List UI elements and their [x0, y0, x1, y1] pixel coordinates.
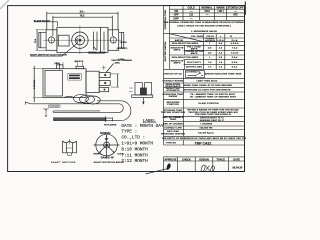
top view far-left clip tab	[39, 32, 46, 48]
capillary return line	[54, 110, 100, 112]
svg-text:AMP(S): AMP(S)	[175, 39, 184, 42]
terminal tab 2	[99, 81, 110, 86]
svg-text:1/2+5/8 Kg/cm: 1/2+5/8 Kg/cm	[198, 133, 214, 135]
flange view right lug	[145, 83, 152, 95]
svg-text:AMPS: AMPS	[191, 52, 198, 55]
svg-text:TEMP: TEMP	[170, 119, 177, 121]
faston leader	[106, 64, 114, 73]
capillary inner hairpin upper line	[31, 104, 124, 113]
svg-text:1 13/16: 1 13/16	[120, 42, 128, 44]
side view shaft stem	[57, 64, 64, 70]
capillary outer hairpin bend	[112, 101, 131, 121]
svg-text:SHAFT ROTATION ANGLE: SHAFT ROTATION ANGLE	[94, 161, 125, 164]
svg-text:SHAFT SECTION: SHAFT SECTION	[51, 161, 76, 164]
svg-text:(2-SHEET): (2-SHEET)	[117, 48, 128, 50]
svg-text:LESS THAN 50mΩ: LESS THAN 50mΩ	[197, 79, 218, 82]
svg-text:OFF: OFF	[174, 14, 179, 17]
svg-text:ELECTRIC RATING: ELECTRIC RATING	[164, 41, 167, 61]
bulb left cap	[53, 117, 55, 121]
svg-text:THE DEPTH OF IMMERSION OF CAPI: THE DEPTH OF IMMERSION OF CAPILLARY MUST…	[162, 137, 247, 140]
spec rows grid	[183, 69, 185, 136]
top view right mounting bracket	[108, 30, 119, 51]
svg-text:RANGE 40°: RANGE 40°	[101, 157, 115, 160]
flange center pin	[143, 98, 145, 104]
sensing bulb (hatched)	[54, 118, 106, 121]
svg-text:DATE : MONTH DAY: DATE : MONTH DAY	[121, 124, 164, 129]
svg-text:TA : AMBIENT TEMP. OF SWITCH B: TA : AMBIENT TEMP. OF SWITCH BODY	[190, 93, 236, 96]
side view left vertical dimension	[33, 66, 35, 102]
svg-text:CONTACT RATING: CONTACT RATING	[162, 79, 183, 82]
design signature	[201, 165, 215, 172]
central shaft boss outer circle	[72, 32, 88, 48]
svg-text:PILOT DUTY: PILOT DUTY	[187, 62, 202, 64]
spec rows texts	[161, 70, 247, 145]
svg-text:1.5-10: 1.5-10	[231, 52, 239, 54]
dimension line mounting holes	[53, 16, 112, 18]
approve signature	[166, 163, 170, 169]
svg-text:TMP CA32: TMP CA32	[195, 141, 212, 145]
svg-text:POSITION: POSITION	[167, 104, 179, 106]
svg-text:100,000 WX: 100,000 WX	[199, 127, 213, 129]
signature block texts	[146, 158, 243, 174]
approve flourish	[146, 168, 170, 174]
svg-text:AMPS: AMPS	[174, 49, 181, 52]
svg-text:0.5-2: 0.5-2	[232, 67, 238, 69]
side view inner front panel	[45, 70, 62, 96]
svg-text:VOLTS: VOLTS	[206, 36, 214, 38]
dial tick right-down	[107, 145, 115, 153]
svg-text:F.L.A: F.L.A	[232, 39, 238, 42]
boss dim extension lines	[76, 61, 78, 67]
svg-text:74±2: 74±2	[204, 10, 210, 13]
svg-text:TESTING CONDITION: TESTING CONDITION	[161, 112, 186, 114]
operating temp table texts	[164, 6, 245, 33]
dial tick left-down	[99, 145, 107, 153]
svg-text:( AND 1 SPACE ON THE SECOND OP: ( AND 1 SPACE ON THE SECOND OPERATING )	[177, 25, 231, 28]
svg-text:76.2: 76.2	[80, 15, 85, 18]
svg-text:THE NORMAL OPERATING TEMP IS M: THE NORMAL OPERATING TEMP IS MEASURED KE…	[164, 21, 245, 24]
svg-text:TYPE :: TYPE :	[121, 130, 137, 135]
flange view center body dark	[140, 88, 147, 96]
border frame	[8, 6, 245, 172]
electric rating table texts	[171, 35, 240, 69]
inner box left of boss	[58, 35, 69, 46]
svg-text:5.5-4: 5.5-4	[232, 61, 238, 64]
svg-text:AMPS: AMPS	[174, 62, 181, 65]
svg-text:APPROVE: APPROVE	[164, 158, 177, 161]
svg-text:7:11 MONTH: 7:11 MONTH	[121, 153, 148, 158]
svg-text:ON: ON	[174, 10, 178, 13]
svg-text:875: 875	[233, 14, 238, 17]
vertical centerline	[79, 26, 81, 55]
svg-text:RESET: RESET	[94, 154, 102, 156]
svg-text:1. REFERENCE VALUE: 1. REFERENCE VALUE	[191, 30, 217, 33]
svg-text:TRACE: TRACE	[216, 158, 225, 161]
bulb flange tick	[105, 116, 107, 122]
svg-text:[ 88 ]: [ 88 ]	[218, 10, 224, 13]
flange view left lug	[135, 83, 142, 95]
top view body	[57, 27, 108, 52]
svg-text:STORED OFF: STORED OFF	[227, 6, 244, 9]
svg-text:RANGE: RANGE	[169, 95, 178, 98]
svg-text:NON-INDUCTIVE AMPS: NON-INDUCTIVE AMPS	[172, 56, 199, 59]
bellows detail right of boss	[94, 27, 105, 52]
svg-text:AMPS: AMPS	[191, 47, 198, 50]
svg-text:NORMAL: NORMAL	[100, 132, 111, 135]
terminal tab 3	[99, 88, 109, 92]
electric rating table grid	[169, 34, 171, 70]
side view body	[43, 69, 86, 98]
right margin dark mark	[244, 2, 246, 16]
svg-text:TB : AMBIENT TEMP. OF SENSING: TB : AMBIENT TEMP. OF SENSING PART	[190, 96, 237, 99]
svg-text:SWITCH STYLE: SWITCH STYLE	[164, 74, 182, 76]
dial center hub	[104, 142, 110, 148]
svg-text:SOURCE: SOURCE	[205, 40, 215, 42]
svg-text:( CONTACT ): ( CONTACT )	[186, 70, 201, 73]
svg-text:NON-INDUCTIVE AMPS: NON-INDUCTIVE AMPS	[172, 42, 199, 45]
svg-text:MOTOR LOAD: MOTOR LOAD	[186, 66, 202, 69]
svg-text:WARM: WARM	[217, 6, 225, 9]
operating temp table grid	[169, 6, 171, 34]
side view terminal block	[86, 71, 99, 92]
shaft dim ticks	[56, 62, 58, 65]
horizontal centerline	[43, 39, 122, 41]
svg-text:7.5-4: 7.5-4	[232, 47, 238, 50]
left bracket hole	[48, 37, 54, 43]
label box on body (dark sticker)	[68, 74, 81, 81]
switch style mini diagram	[186, 71, 205, 78]
svg-text:PRESSURE TESTING: PRESSURE TESTING	[161, 133, 185, 135]
dial vertical axis	[106, 135, 108, 158]
shaft section inner lines	[66, 143, 72, 153]
top view left mounting bracket	[46, 30, 57, 51]
svg-text:SENSING PART 50 °C: SENSING PART 50 °C	[200, 119, 225, 122]
capillary left end cap	[52, 111, 55, 113]
side view boss	[76, 66, 84, 68]
table column left edge	[163, 6, 165, 145]
shaft section outline	[63, 141, 77, 153]
shaft circle middle	[75, 36, 84, 45]
dimension line overall width	[47, 12, 118, 14]
svg-text:(.588): (.588)	[54, 63, 60, 65]
svg-text:TYPE NO: TYPE NO	[166, 142, 177, 144]
table top edge emphasis	[164, 5, 245, 7]
coil outlet tube	[97, 100, 121, 102]
svg-text:98.04.30: 98.04.30	[233, 167, 243, 170]
svg-text:MORE THAN 100MΩ AT DC 500V MEG: MORE THAN 100MΩ AT DC 500V MEGGER	[184, 84, 232, 87]
svg-text:L.R.A: L.R.A	[217, 39, 224, 42]
svg-text:CHECK: CHECK	[182, 158, 191, 161]
svg-text:STRENGTH: STRENGTH	[167, 90, 180, 92]
leader normal notch	[94, 47, 97, 50]
capillary coil at body bottom	[74, 94, 89, 102]
svg-text:COLD: COLD	[188, 6, 195, 9]
shaft section center tick	[69, 139, 71, 145]
svg-text:○ CHANGE: ○ CHANGE	[200, 123, 213, 126]
small label box on capillary	[49, 105, 61, 107]
svg-text:8.5-4: 8.5-4	[232, 56, 238, 59]
right bracket hole	[110, 37, 116, 43]
flange base plate	[132, 95, 153, 98]
terminal tab 1	[99, 73, 110, 78]
svg-text:1 3/8 34.9: 1 3/8 34.9	[33, 79, 36, 89]
diagonal header cell	[170, 34, 204, 42]
terminal centerline cross	[102, 65, 106, 70]
svg-text:CONTACT LIFE: CONTACT LIFE	[164, 126, 182, 129]
svg-text:2:12 MONTH: 2:12 MONTH	[121, 159, 148, 164]
svg-text:THE DEW POINT PER DOING IN: THE DEW POINT PER DOING IN	[195, 114, 231, 116]
svg-text:CO.,LTD :: CO.,LTD :	[121, 136, 145, 141]
svg-text:OPERATING TEMP: OPERATING TEMP	[164, 9, 167, 29]
svg-text:IN ANY POSITION: IN ANY POSITION	[198, 102, 218, 105]
svg-text:40°: 40°	[105, 138, 109, 141]
svg-text:%: %	[230, 36, 232, 38]
svg-text:1~91=9 MONTH: 1~91=9 MONTH	[121, 142, 153, 147]
capillary left hook	[25, 102, 30, 105]
svg-text:DATE: DATE	[233, 158, 240, 161]
svg-text:DESIGN: DESIGN	[199, 158, 209, 161]
shaft flat (dark)	[76, 38, 77, 44]
svg-text:TB FLANGE: TB FLANGE	[104, 124, 117, 127]
right side dim bracket	[117, 74, 119, 87]
svg-text:NORMAL: NORMAL	[202, 6, 213, 9]
svg-text:ARROW INDICATES TEMP. RISE: ARROW INDICATES TEMP. RISE	[205, 73, 242, 76]
top view left vertical dimension	[36, 30, 38, 51]
svg-text:VOL.TAGE: VOL.TAGE	[191, 35, 203, 38]
top view far-right clip tab	[119, 32, 124, 48]
svg-text:END OF CHARGE: END OF CHARGE	[163, 123, 183, 126]
bulb hatching	[55, 118, 105, 121]
flange tiny dim	[129, 87, 133, 89]
dial horizontal axis	[94, 144, 120, 146]
svg-text:250A: 250A	[115, 62, 121, 65]
svg-text:FASTON TERMINAL: FASTON TERMINAL	[112, 59, 133, 62]
svg-text:WITHSTAND AC 1000V FOR ONE MIN: WITHSTAND AC 1000V FOR ONE MINUTE	[183, 88, 231, 91]
svg-text:3²⁄₁₆: 3²⁄₁₆	[80, 9, 85, 13]
dial circle	[96, 134, 118, 156]
capillary dim arrow	[45, 109, 47, 117]
svg-text:8:10 MONTH: 8:10 MONTH	[121, 147, 148, 152]
signature block grid	[164, 157, 245, 172]
svg-text:DIFF: DIFF	[173, 17, 179, 20]
svg-text:0.5-8.8: 0.5-8.8	[231, 43, 239, 45]
svg-text:111: 111	[189, 14, 194, 17]
